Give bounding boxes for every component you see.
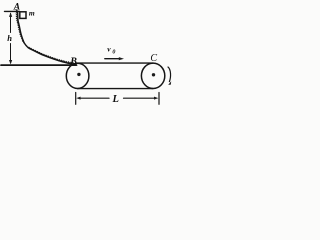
pulley rotation arrow — [168, 67, 171, 82]
dimension tick right — [158, 93, 160, 105]
belt top line — [76, 62, 153, 64]
platform ledge at A — [5, 10, 20, 12]
right pulley — [141, 63, 164, 88]
svg-text:v: v — [107, 45, 111, 54]
svg-text:m: m — [29, 8, 35, 17]
arrowhead up of h — [9, 12, 12, 17]
svg-text:h: h — [7, 33, 12, 43]
ground line — [1, 64, 77, 66]
arrowhead dimension right — [154, 97, 158, 100]
dimension tick left — [75, 93, 77, 105]
height dimension line h upper segment — [10, 14, 12, 33]
arrowhead of rotation arrow — [168, 81, 171, 85]
svg-text:A: A — [13, 3, 20, 13]
arrowhead dimension left — [76, 97, 80, 100]
svg-text:0: 0 — [112, 49, 115, 55]
right pulley axle dot — [152, 73, 155, 76]
block m — [20, 12, 26, 19]
track hatching — [16, 10, 75, 65]
svg-text:B: B — [69, 56, 77, 67]
left pulley — [66, 63, 89, 88]
arrowhead down of h — [9, 60, 12, 65]
svg-text:C: C — [150, 53, 157, 64]
dimension line left segment — [81, 97, 109, 99]
dimension line right segment — [124, 97, 155, 99]
left pulley axle dot — [77, 73, 80, 76]
arrowhead of v0 — [119, 57, 124, 60]
height dimension line h lower segment — [10, 44, 12, 61]
belt velocity arrow v0 — [105, 58, 120, 60]
belt bottom line — [78, 88, 153, 90]
svg-text:L: L — [112, 94, 119, 105]
curved slide track — [18, 11, 76, 64]
